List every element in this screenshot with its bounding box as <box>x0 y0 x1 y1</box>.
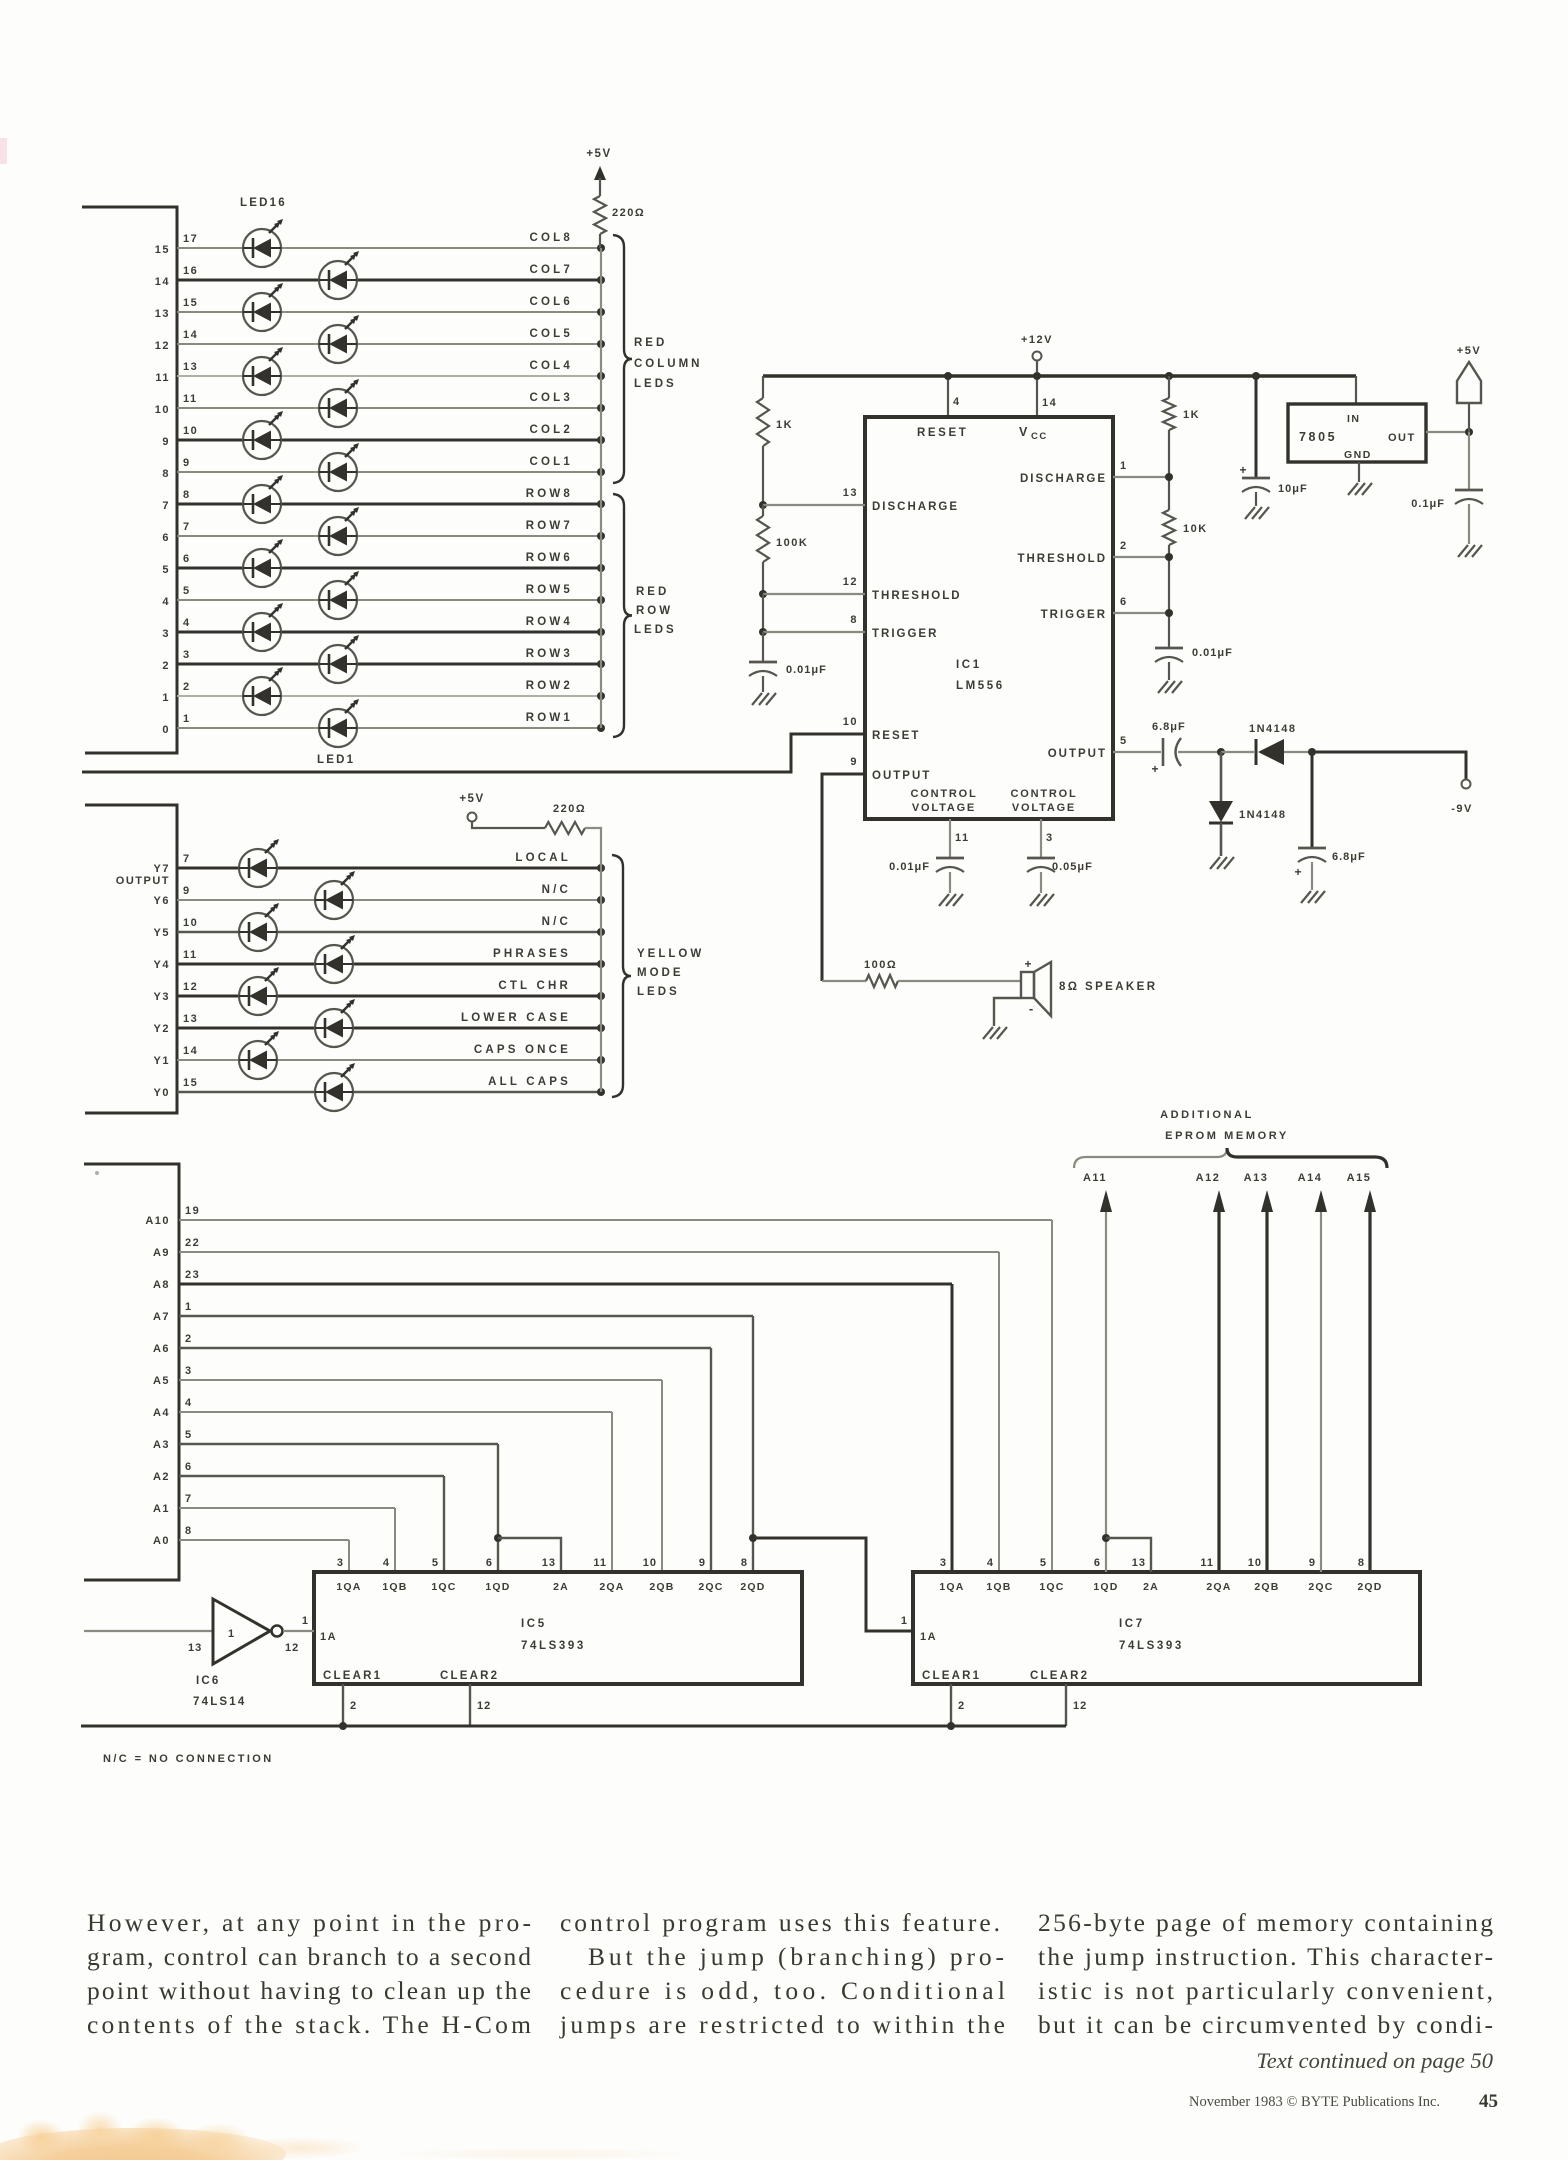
svg-text:11: 11 <box>955 832 970 844</box>
svg-text:2: 2 <box>183 681 191 693</box>
wire: COL3 line (pin 11) <box>177 407 601 409</box>
pin 5 1QC (IC5) <box>431 1557 456 1593</box>
svg-text:7: 7 <box>183 521 191 533</box>
svg-text:Y5: Y5 <box>154 927 170 939</box>
svg-text:YELLOW: YELLOW <box>637 948 704 960</box>
svg-text:COL8: COL8 <box>530 232 573 244</box>
wire: A9 drop to counter <box>998 1252 1000 1572</box>
svg-text:5: 5 <box>1040 1557 1047 1569</box>
svg-text:2QA: 2QA <box>599 1581 624 1593</box>
regulator 7805 <box>1288 404 1426 462</box>
svg-text:13: 13 <box>542 1557 556 1569</box>
svg-text:3: 3 <box>337 1557 344 1569</box>
wire: to pin 13 <box>763 504 865 506</box>
svg-text:3: 3 <box>940 1557 947 1569</box>
pin 5 1QC (IC7) <box>1039 1557 1064 1593</box>
svg-text:ROW1: ROW1 <box>526 712 573 724</box>
wire: COL1 line (pin 9) <box>177 471 601 473</box>
svg-text:11: 11 <box>183 393 198 405</box>
junction: ROW4 to +5V bus <box>597 628 605 636</box>
LED yellow Y0 <box>315 1063 355 1111</box>
svg-text:Y3: Y3 <box>154 991 170 1003</box>
svg-text:10μF: 10μF <box>1278 483 1308 495</box>
junction threshold <box>1165 553 1173 561</box>
svg-text:IC6: IC6 <box>196 1675 221 1687</box>
node: stray mark <box>95 1171 99 1175</box>
junction: N/C to +5V bus <box>597 928 605 936</box>
junction: trigger pin 8 <box>759 628 767 636</box>
wire: +5V bus right of group1 <box>600 248 602 728</box>
svg-text:Y4: Y4 <box>154 959 170 971</box>
junction: COL8 to +5V bus <box>597 244 605 252</box>
svg-text:10: 10 <box>843 716 858 728</box>
svg-text:ROW: ROW <box>636 605 673 617</box>
svg-text:contents of the stack. The H-C: contents of the stack. The H-Com <box>87 2010 531 2039</box>
svg-text:CLEAR2: CLEAR2 <box>1030 1670 1089 1682</box>
LED LED9 <box>319 443 359 491</box>
svg-text:2: 2 <box>350 1700 357 1712</box>
svg-text:VOLTAGE: VOLTAGE <box>912 802 976 814</box>
svg-text:LOCAL: LOCAL <box>515 852 571 864</box>
svg-text:LM556: LM556 <box>956 680 1005 692</box>
svg-text:19: 19 <box>185 1205 200 1217</box>
svg-text:A9: A9 <box>153 1247 170 1259</box>
brace: additional eprom memory <box>1074 1148 1387 1168</box>
svg-text:RESET: RESET <box>872 730 920 742</box>
svg-text:10: 10 <box>183 425 198 437</box>
wire: rail to 7805 IN <box>1355 376 1357 404</box>
LED LED2 <box>243 667 283 715</box>
svg-text:1QB: 1QB <box>986 1581 1011 1593</box>
wire: COL6 line (pin 15) <box>177 311 601 313</box>
svg-text:1QB: 1QB <box>382 1581 407 1593</box>
wire: clear bus <box>81 1725 1066 1728</box>
svg-text:6: 6 <box>185 1461 193 1473</box>
svg-text:V: V <box>1019 425 1028 439</box>
pin 9 2QC (IC5) <box>698 1557 723 1593</box>
svg-text:LEDS: LEDS <box>634 624 677 636</box>
svg-text:IC5: IC5 <box>521 1618 547 1630</box>
pin 3 1QA (IC5) <box>336 1557 361 1593</box>
svg-text:6.8μF: 6.8μF <box>1332 851 1366 863</box>
wire: cap to D1 junction <box>1178 751 1221 753</box>
svg-text:+: + <box>1151 762 1158 776</box>
wire: resistor to COL8 junction <box>599 234 601 248</box>
junction: COL2 to +5V bus <box>597 436 605 444</box>
svg-text:jumps are restricted to within: jumps are restricted to within the <box>559 2010 1005 2039</box>
svg-text:13: 13 <box>843 487 858 499</box>
junction: LOWER CASE to +5V bus <box>597 1024 605 1032</box>
junction after D1 <box>1308 748 1316 756</box>
svg-text:1: 1 <box>228 1628 235 1640</box>
junction: 2QD (IC5) cascade to IC7 <box>749 1534 757 1542</box>
svg-text:2: 2 <box>958 1700 965 1712</box>
LED LED12 <box>243 347 283 395</box>
svg-text:OUTPUT: OUTPUT <box>1048 748 1107 760</box>
svg-text:8: 8 <box>185 1525 193 1537</box>
svg-text:However, at any point in the p: However, at any point in the pro- <box>87 1908 531 1937</box>
pin 11 2QA (IC7) <box>1200 1557 1231 1593</box>
svg-text:ROW6: ROW6 <box>526 552 573 564</box>
wire: A10 (pin 19) <box>179 1219 1052 1221</box>
wire: IC7 clear2 pin 12 <box>1065 1684 1067 1726</box>
pin 6 1QD (IC5) <box>485 1557 510 1593</box>
scan stain bottom left <box>0 2128 286 2160</box>
svg-text:220Ω: 220Ω <box>612 207 645 219</box>
LED LED11 <box>319 379 359 427</box>
svg-text:7: 7 <box>185 1493 193 1505</box>
wire: A0 drop to counter <box>348 1540 350 1572</box>
resistor 1K (right) <box>1163 398 1175 430</box>
svg-text:A4: A4 <box>153 1407 170 1419</box>
wire: ALL CAPS line (pin 15) <box>177 1091 601 1093</box>
wire: A13 eprom address arrow <box>1244 1172 1273 1572</box>
wire: A12 eprom address arrow <box>1196 1172 1225 1572</box>
svg-text:10: 10 <box>155 404 170 416</box>
svg-text:1: 1 <box>302 1615 309 1627</box>
svg-text:1A: 1A <box>320 1631 337 1643</box>
svg-text:OUT: OUT <box>1388 432 1416 444</box>
svg-text:A10: A10 <box>145 1215 170 1227</box>
svg-text:45: 45 <box>1479 2091 1498 2112</box>
svg-text:COL7: COL7 <box>530 264 573 276</box>
svg-text:Y1: Y1 <box>154 1055 170 1067</box>
svg-text:control program uses this feat: control program uses this feature. <box>560 1908 1000 1937</box>
svg-text:RED: RED <box>634 337 667 349</box>
junction: ROW6 to +5V bus <box>597 564 605 572</box>
wire: LOWER CASE line (pin 13) <box>177 1027 601 1030</box>
label RED COLUMN LEDS <box>634 337 702 390</box>
svg-text:+5V: +5V <box>459 793 484 805</box>
svg-text:DISCHARGE: DISCHARGE <box>1020 473 1107 485</box>
svg-text:74LS393: 74LS393 <box>1119 1640 1184 1652</box>
svg-text:A3: A3 <box>153 1439 170 1451</box>
wire: A1 drop to counter <box>394 1508 396 1572</box>
wire: threshold junction to trigger junction <box>762 594 764 632</box>
pin 11 2QA (IC5) <box>593 1557 624 1593</box>
junction: threshold pin 12 <box>759 590 767 598</box>
LED LED7 <box>319 507 359 555</box>
svg-text:1QA: 1QA <box>939 1581 964 1593</box>
svg-text:2QB: 2QB <box>1254 1581 1279 1593</box>
svg-text:MODE: MODE <box>637 967 684 979</box>
svg-text:256-byte page of memory contai: 256-byte page of memory containing <box>1038 1908 1493 1937</box>
wire: 7805 OUT node <box>1426 431 1469 433</box>
brace: red row leds <box>613 494 632 737</box>
svg-text:10K: 10K <box>1183 523 1208 535</box>
wire: rail to right chain <box>1165 372 1173 380</box>
svg-text:12: 12 <box>183 981 198 993</box>
svg-text:12: 12 <box>843 576 858 588</box>
junction: ROW7 to +5V bus <box>597 532 605 540</box>
wire: N/C line (pin 10) <box>177 931 601 933</box>
svg-text:A5: A5 <box>153 1375 170 1387</box>
svg-text:CC: CC <box>1031 431 1048 442</box>
wire: N/C line (pin 9) <box>177 899 601 901</box>
svg-text:1: 1 <box>901 1615 908 1627</box>
svg-text:1N4148: 1N4148 <box>1239 809 1287 821</box>
LED LED13 <box>319 315 359 363</box>
junction: COL1 to +5V bus <box>597 468 605 476</box>
footer <box>1189 2091 1498 2112</box>
wire: 220 ohm to group2 bus <box>585 828 601 1092</box>
LED LED1 <box>319 699 359 747</box>
svg-text:ROW5: ROW5 <box>526 584 573 596</box>
svg-text:12: 12 <box>477 1700 491 1712</box>
inverter IC6 74LS14 <box>188 1599 299 1708</box>
wire: A0 (pin 8) <box>179 1539 349 1541</box>
svg-text:4: 4 <box>987 1557 994 1569</box>
speaker 8 ohm <box>983 957 1157 1039</box>
svg-text:100K: 100K <box>776 537 808 549</box>
svg-text:A2: A2 <box>153 1471 170 1483</box>
pin 8 2QD (IC7) <box>1357 1557 1382 1593</box>
svg-text:2A: 2A <box>553 1581 569 1593</box>
svg-text:CTL CHR: CTL CHR <box>498 980 571 992</box>
wire: threshold pin 2 <box>1113 556 1169 558</box>
wire: A2 (pin 6) <box>179 1475 444 1477</box>
junction: discharge node <box>1165 473 1173 481</box>
wire: 1K to discharge <box>1168 430 1170 510</box>
svg-text:Y2: Y2 <box>154 1023 170 1035</box>
svg-text:15: 15 <box>183 297 198 309</box>
svg-text:3: 3 <box>162 628 170 640</box>
svg-text:5: 5 <box>432 1557 439 1569</box>
svg-text:1K: 1K <box>1183 409 1200 421</box>
wire: A8 drop to counter <box>951 1284 954 1572</box>
wire: IC5 clear2 pin 12 <box>469 1684 471 1726</box>
wire: long line to IC1 reset pin 10 <box>82 734 866 772</box>
LED yellow Y5 <box>239 903 279 951</box>
wire: A15 eprom address arrow <box>1347 1172 1376 1572</box>
svg-text:4: 4 <box>183 617 191 629</box>
svg-text:A12: A12 <box>1196 1172 1221 1184</box>
svg-text:1: 1 <box>162 692 170 704</box>
svg-text:Text continued on page 50: Text continued on page 50 <box>1256 2048 1493 2073</box>
wire: COL4 line (pin 13) <box>177 375 601 377</box>
LED yellow Y7 <box>239 839 279 887</box>
wire: to pin 8 <box>763 631 865 633</box>
svg-text:A11: A11 <box>1083 1172 1107 1184</box>
svg-text:15: 15 <box>155 244 170 256</box>
svg-text:4: 4 <box>953 396 961 408</box>
svg-text:A1: A1 <box>153 1503 170 1515</box>
svg-text:7805: 7805 <box>1299 430 1337 444</box>
LED LED3 <box>319 635 359 683</box>
wire: input to IC6 <box>84 1630 213 1632</box>
svg-text:+12V: +12V <box>1021 334 1053 346</box>
wire: A9 (pin 22) <box>179 1251 999 1253</box>
wire: pin 9 output down to speaker <box>822 774 865 981</box>
svg-text:12: 12 <box>1073 1700 1087 1712</box>
svg-text:6.8μF: 6.8μF <box>1152 721 1186 733</box>
junction: COL3 to +5V bus <box>597 404 605 412</box>
wire: +12V power rail <box>763 374 1356 377</box>
svg-text:14: 14 <box>155 276 170 288</box>
svg-text:+5V: +5V <box>586 148 611 160</box>
wire: COL2 line (pin 10) <box>177 439 601 442</box>
svg-text:2QA: 2QA <box>1206 1581 1231 1593</box>
svg-text:2QC: 2QC <box>1308 1581 1333 1593</box>
svg-text:8: 8 <box>850 614 858 626</box>
svg-text:A15: A15 <box>1347 1172 1372 1184</box>
svg-text:15: 15 <box>183 1077 198 1089</box>
LED LED8 <box>243 475 283 523</box>
svg-text:100Ω: 100Ω <box>864 959 897 971</box>
svg-text:1QC: 1QC <box>431 1581 456 1593</box>
LED yellow Y2 <box>315 999 355 1047</box>
svg-text:1A: 1A <box>920 1631 937 1643</box>
wire: A4 (pin 4) <box>179 1411 612 1413</box>
svg-text:point without having to clean: point without having to clean up the <box>87 1976 531 2005</box>
svg-text:ROW4: ROW4 <box>526 616 573 628</box>
LED yellow Y1 <box>239 1031 279 1079</box>
LED LED6 <box>243 539 283 587</box>
junction: ALL CAPS to +5V bus <box>597 1088 605 1096</box>
svg-text:IC1: IC1 <box>956 659 982 671</box>
svg-text:11: 11 <box>593 1557 607 1569</box>
junction: 1QD to 2A (IC5) <box>494 1534 502 1542</box>
LED LED10 <box>243 411 283 459</box>
LED LED14 <box>243 283 283 331</box>
wire: 1K to discharge junction <box>762 446 764 505</box>
svg-text:2: 2 <box>162 660 170 672</box>
resistor 220 ohm (group1) <box>594 196 606 234</box>
wire: COL5 line (pin 14) <box>177 343 601 345</box>
pin 3 1QA (IC7) <box>939 1557 964 1593</box>
wire: ROW3 line (pin 3) <box>177 663 601 666</box>
svg-text:cedure is odd, too. Conditiona: cedure is odd, too. Conditional <box>560 1976 1005 2005</box>
svg-text:ROW3: ROW3 <box>526 648 573 660</box>
svg-text:A0: A0 <box>153 1535 170 1547</box>
wire: A1 (pin 7) <box>179 1507 395 1509</box>
LED LED15 <box>319 251 359 299</box>
svg-text:ALL CAPS: ALL CAPS <box>488 1076 571 1088</box>
svg-text:0.01μF: 0.01μF <box>786 664 827 676</box>
svg-text:23: 23 <box>185 1269 200 1281</box>
wire: trigger pin 6 <box>1113 612 1169 614</box>
resistor 220 ohm (group2) <box>545 822 585 834</box>
svg-text:9: 9 <box>699 1557 706 1569</box>
ground (right chain) <box>1168 662 1170 680</box>
svg-text:12: 12 <box>155 340 170 352</box>
svg-text:6: 6 <box>162 532 170 544</box>
ground (7805) <box>1358 462 1360 482</box>
svg-text:A13: A13 <box>1244 1172 1269 1184</box>
svg-text:1QA: 1QA <box>336 1581 361 1593</box>
wire: A3 drop to counter <box>497 1444 499 1572</box>
wire: ROW8 line (pin 8) <box>177 503 601 506</box>
svg-text:3: 3 <box>1046 832 1054 844</box>
svg-text:2: 2 <box>1120 540 1128 552</box>
svg-text:10: 10 <box>1248 1557 1262 1569</box>
power +12V terminal <box>1021 334 1053 376</box>
svg-text:0.01μF: 0.01μF <box>1192 647 1233 659</box>
IC IC7 74LS393 <box>913 1572 1420 1684</box>
wire: rail down to 1K <box>762 376 764 398</box>
svg-text:N/C: N/C <box>542 884 571 896</box>
wire: IC5 clear1 pin 2 <box>342 1684 344 1726</box>
wire: group2 left bus <box>85 805 177 1113</box>
junction: discharge pin 13 <box>759 501 767 509</box>
wire: COL8 line (pin 17) <box>177 247 601 249</box>
svg-text:4: 4 <box>162 596 170 608</box>
svg-text:LED1: LED1 <box>317 754 355 766</box>
pin 6 1QD (IC7) <box>1093 1557 1118 1593</box>
LED yellow Y4 <box>315 935 355 983</box>
junction: LOCAL to +5V bus <box>597 864 605 872</box>
svg-text:IN: IN <box>1347 413 1361 425</box>
capacitor 0.05uF control voltage pin 3 <box>1027 819 1093 906</box>
wire: ROW5 line (pin 5) <box>177 599 601 601</box>
svg-text:LEDS: LEDS <box>637 986 680 998</box>
svg-text:A7: A7 <box>153 1311 170 1323</box>
wire: to pin 12 <box>763 593 865 595</box>
svg-text:8Ω SPEAKER: 8Ω SPEAKER <box>1059 981 1157 993</box>
LED LED16 <box>243 219 283 267</box>
diode D1 1N4148 (series) <box>1221 723 1312 765</box>
svg-text:IC7: IC7 <box>1119 1618 1145 1630</box>
junction: N/C to +5V bus <box>597 896 605 904</box>
paragraph column 1 <box>87 1908 531 2039</box>
svg-text:9: 9 <box>1309 1557 1316 1569</box>
pin 4 1QB (IC5) <box>382 1557 407 1593</box>
wire: CAPS ONCE line (pin 14) <box>177 1059 601 1061</box>
junction: CAPS ONCE to +5V bus <box>597 1056 605 1064</box>
svg-text:N/C: N/C <box>542 916 571 928</box>
svg-text:2QD: 2QD <box>1357 1581 1382 1593</box>
svg-text:-: - <box>1029 1001 1033 1016</box>
svg-text:2QB: 2QB <box>649 1581 674 1593</box>
svg-text:8: 8 <box>162 468 170 480</box>
wire: +5V to 220 ohm <box>472 821 545 828</box>
svg-text:0.01μF: 0.01μF <box>889 861 930 873</box>
svg-text:2A: 2A <box>1143 1581 1159 1593</box>
svg-text:RED: RED <box>636 586 669 598</box>
capacitor 0.1uF <box>1411 432 1483 557</box>
wire: A2 drop to counter <box>443 1476 445 1572</box>
svg-text:14: 14 <box>183 1045 198 1057</box>
svg-text:9: 9 <box>183 457 191 469</box>
svg-text:+5V: +5V <box>1457 345 1481 357</box>
wire: A7 drop to counter <box>752 1316 754 1572</box>
capacitor 0.01uF (right chain) <box>1155 647 1183 650</box>
svg-text:but it can be circumvented by: but it can be circumvented by condi- <box>1038 2010 1493 2039</box>
svg-text:1: 1 <box>1120 460 1128 472</box>
wire: A8 (pin 23) <box>179 1283 952 1286</box>
IC IC5 74LS393 <box>314 1572 802 1684</box>
svg-text:3: 3 <box>185 1365 193 1377</box>
svg-text:CONTROL: CONTROL <box>1011 788 1078 800</box>
wire: 10K to threshold <box>1168 545 1170 648</box>
svg-text:9: 9 <box>850 756 858 768</box>
svg-text:14: 14 <box>1042 397 1057 409</box>
junction: CTL CHR to +5V bus <box>597 992 605 1000</box>
wire: ROW7 line (pin 7) <box>177 535 601 537</box>
pin 9 2QC (IC7) <box>1308 1557 1333 1593</box>
svg-text:-9V: -9V <box>1451 803 1473 815</box>
svg-text:CLEAR1: CLEAR1 <box>323 1670 382 1682</box>
resistor 100 ohm <box>822 959 1021 987</box>
svg-text:N/C = NO CONNECTION: N/C = NO CONNECTION <box>103 1753 274 1765</box>
svg-text:4: 4 <box>185 1397 193 1409</box>
svg-text:ADDITIONAL: ADDITIONAL <box>1160 1109 1254 1121</box>
svg-text:8: 8 <box>1358 1557 1365 1569</box>
junction: ROW2 to +5V bus <box>597 692 605 700</box>
power +5V output arrow <box>1457 345 1481 432</box>
svg-text:LOWER CASE: LOWER CASE <box>461 1012 571 1024</box>
svg-text:+: + <box>1024 957 1031 971</box>
